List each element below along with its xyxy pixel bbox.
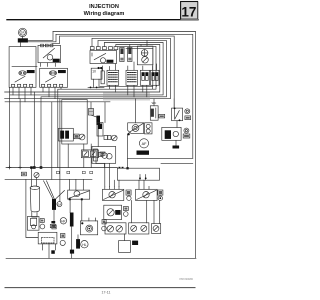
svg-text:INJECTION: INJECTION xyxy=(89,4,119,10)
wire below coil xyxy=(53,210,55,224)
svg-text:PRO30MD: PRO30MD xyxy=(179,277,193,281)
labels right of sensor 1 xyxy=(126,190,131,200)
inner frame line xyxy=(56,34,193,158)
pump motor box xyxy=(27,217,39,231)
band shading xyxy=(103,93,150,101)
page number box 17 xyxy=(181,2,198,20)
labels right of dashed box xyxy=(60,234,65,246)
throttle potentiometer box xyxy=(92,147,116,164)
wire under module row xyxy=(12,65,37,67)
solenoid box right xyxy=(162,127,181,140)
connector grid 2 xyxy=(126,62,138,97)
outer frame xyxy=(53,32,196,259)
indicator relay right xyxy=(185,109,191,120)
svg-text:Wiring diagram: Wiring diagram xyxy=(84,11,125,17)
sensor DF xyxy=(18,28,26,38)
wire connector to inner line xyxy=(28,34,56,42)
wire below bar 2 xyxy=(71,227,73,259)
twin terminal box xyxy=(145,123,153,134)
relay output square xyxy=(119,234,139,252)
ignition coil (solid) xyxy=(52,199,56,210)
wire below ballast xyxy=(97,125,99,147)
labels right of sensor 2 xyxy=(158,190,163,200)
svg-text:EA: EA xyxy=(58,203,62,207)
left drop wire xyxy=(9,87,11,167)
wire to pump xyxy=(31,169,33,186)
narrow element left of grids xyxy=(101,66,104,84)
relay right xyxy=(172,108,183,122)
lower bus 2 xyxy=(5,178,92,180)
top bus wire 5 xyxy=(34,45,160,168)
frame bottom wire xyxy=(6,257,196,259)
terminal circle below coil xyxy=(50,224,56,227)
oxygen sensor box 1 xyxy=(103,186,124,200)
wire to bus1 xyxy=(96,163,105,167)
connector box L xyxy=(105,223,126,234)
crank sensor box xyxy=(127,99,143,136)
sensor EA xyxy=(57,202,62,207)
twin cap connector 4 xyxy=(150,64,159,89)
wire ECU bottom drop xyxy=(67,144,69,168)
drop TPS to sensor1 xyxy=(105,163,119,186)
warning lamp bar (solid) xyxy=(76,239,80,249)
ground right xyxy=(173,140,180,148)
label above dashed box xyxy=(52,225,56,229)
right vertical to relay xyxy=(173,99,175,108)
top bus wire 3 xyxy=(41,40,166,167)
pump relay box xyxy=(68,179,90,200)
wire into lamp bar xyxy=(77,235,79,239)
wire pump relay to bar2 xyxy=(69,200,71,212)
svg-text:HL: HL xyxy=(82,243,86,247)
indicator solenoid right xyxy=(183,128,190,138)
junction block below coil xyxy=(51,221,55,223)
wire relay to solenoid xyxy=(176,121,178,128)
label text marks xyxy=(22,115,189,236)
connector box M xyxy=(129,201,149,235)
sensor HK xyxy=(60,218,66,224)
footer rule xyxy=(5,287,195,289)
top bus wire 6 xyxy=(58,46,156,167)
capacitor 1 xyxy=(120,48,124,62)
water temp sensor xyxy=(150,99,164,121)
wire right lower xyxy=(161,163,193,165)
bus band line 7 xyxy=(5,101,110,103)
oxygen sensor box 2 xyxy=(136,180,158,200)
lamp HL xyxy=(81,241,88,248)
double diode box xyxy=(81,150,105,158)
mid drop wire x105 xyxy=(104,102,106,123)
fuel computer box xyxy=(90,47,118,64)
sensor AF xyxy=(139,139,148,148)
twin sensor box xyxy=(137,40,153,64)
top bus wire 1 xyxy=(52,36,174,108)
module 2 relay guts xyxy=(42,70,66,99)
svg-text:DF: DF xyxy=(21,31,25,35)
drop wire x51.8 xyxy=(51,102,53,180)
suppressor bar 2 (solid) xyxy=(70,213,74,227)
connector box R xyxy=(152,200,161,233)
labels right of pressure sensor xyxy=(124,207,129,217)
bus junction labels xyxy=(57,171,93,173)
terminal square x34 xyxy=(33,166,36,169)
svg-text:17-11: 17-11 xyxy=(102,291,111,295)
ignition module 1 outer box xyxy=(9,47,36,88)
top bus wire 2 xyxy=(20,38,170,167)
ignition module 2 outer box xyxy=(40,68,68,87)
terminal squares on bus xyxy=(30,166,33,169)
pressure sensor box xyxy=(104,205,122,219)
wire left into dashed box xyxy=(26,179,38,237)
top bus wire 4 xyxy=(10,43,163,95)
main harness connector box xyxy=(117,167,159,180)
wire circle to pump xyxy=(36,178,38,187)
starter switch box xyxy=(38,44,61,66)
stub connector to module 1 xyxy=(20,43,22,47)
junction cross left xyxy=(8,166,22,169)
resistor connector xyxy=(89,102,97,117)
wires diode box pins xyxy=(84,144,96,168)
svg-text:17: 17 xyxy=(181,4,196,19)
idle speed actuator xyxy=(97,123,117,141)
labels right of diag socket xyxy=(102,220,107,231)
top bus wire 7 xyxy=(100,48,153,86)
black bar under AF xyxy=(137,151,150,155)
band line 98.7 left end xyxy=(5,98,21,100)
connector block (solid) xyxy=(18,38,28,42)
wire pump relay to diag socket xyxy=(81,200,83,221)
fuel pump cylinder xyxy=(30,186,39,217)
label NO left xyxy=(21,172,26,176)
drop wire x59.9 xyxy=(59,99,61,202)
ECU box xyxy=(62,100,87,145)
band line 92 left end xyxy=(5,91,35,93)
twin cap connector 3 xyxy=(140,66,149,97)
junction square below bar 2 xyxy=(70,250,74,254)
module 1 relay guts xyxy=(12,70,35,102)
fuse box 10 xyxy=(88,67,104,88)
ballast resistor (solid) xyxy=(96,116,100,125)
lower bus 1 xyxy=(6,167,117,169)
capacitor 2 xyxy=(128,45,132,62)
dashed box unit xyxy=(38,232,57,258)
wire to inner frame xyxy=(126,134,192,169)
coil feed diagonals xyxy=(44,181,65,199)
terminal square x41 xyxy=(40,166,43,169)
svg-text:10: 10 xyxy=(92,70,96,74)
svg-text:AF: AF xyxy=(142,142,148,146)
header rule xyxy=(7,19,198,21)
wire connector to frame top xyxy=(28,32,53,41)
connector grid 1 xyxy=(107,64,119,92)
diagnostic socket box xyxy=(80,218,97,235)
terminal circle left xyxy=(34,172,39,177)
labels right of pump xyxy=(40,219,45,229)
ignition power module xyxy=(59,128,85,141)
